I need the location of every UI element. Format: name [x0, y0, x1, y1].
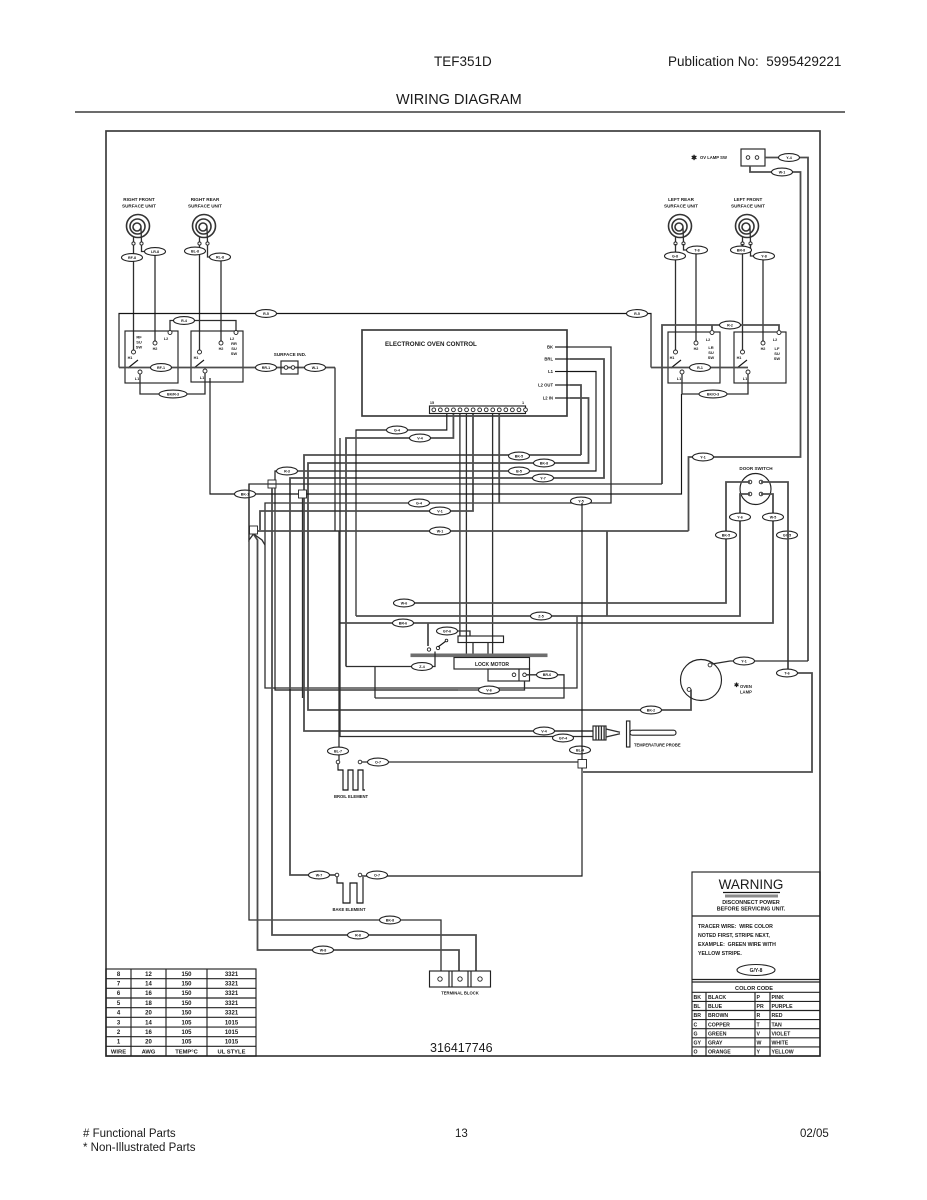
- wire strip t5 to lock relay: [459, 414, 461, 636]
- wire strip t3 (G-4): [356, 414, 447, 616]
- svg-text:O: O: [694, 1050, 698, 1056]
- svg-text:3321: 3321: [225, 1011, 239, 1017]
- svg-text:DOOR SWITCH: DOOR SWITCH: [739, 466, 773, 471]
- surface unit LF coil: [736, 215, 759, 246]
- svg-text:BLACK: BLACK: [708, 995, 726, 1001]
- wire strip t10 to lock bar: [492, 414, 494, 654]
- wire label G-4: [387, 426, 408, 434]
- wire L2 bus left (R-4): [170, 321, 236, 332]
- wire label T-6: [777, 669, 798, 677]
- svg-text:1015: 1015: [225, 1020, 239, 1026]
- wire junction B to lock area: [307, 394, 682, 494]
- svg-text:WIRE: WIRE: [111, 1049, 126, 1055]
- svg-text:BK-5: BK-5: [515, 454, 523, 458]
- wire label BK-1: [235, 490, 256, 498]
- svg-text:UL STYLE: UL STYLE: [218, 1049, 246, 1055]
- svg-text:H2: H2: [761, 347, 766, 351]
- svg-text:H2: H2: [153, 347, 158, 351]
- switch box LF SU SW: [734, 332, 786, 383]
- svg-text:B-5: B-5: [516, 469, 522, 473]
- svg-text:L2 OUT: L2 OUT: [538, 383, 553, 388]
- wire label RF-8: [122, 254, 143, 262]
- pin H1 (LF switch): [741, 350, 745, 354]
- wire label RL-8: [210, 253, 231, 261]
- svg-text:Y: Y: [757, 1050, 761, 1056]
- svg-text:H1: H1: [194, 356, 199, 360]
- temperature probe connector: [593, 726, 606, 740]
- svg-text:V-4: V-4: [541, 729, 546, 733]
- svg-text:BK-5: BK-5: [722, 533, 730, 537]
- wire L2 bus run y=484: [249, 484, 662, 971]
- svg-text:L2 IN: L2 IN: [543, 396, 553, 401]
- wire label Y-7: [533, 474, 554, 482]
- svg-text:SW: SW: [708, 355, 715, 360]
- pin H1 (RF switch): [132, 350, 136, 354]
- svg-text:SW: SW: [136, 345, 143, 350]
- lock motor relay rectangle: [458, 636, 504, 643]
- svg-text:3321: 3321: [225, 982, 239, 988]
- svg-text:WHITE: WHITE: [772, 1041, 789, 1047]
- svg-text:16: 16: [145, 1030, 152, 1036]
- wire label V-4: [534, 727, 555, 735]
- svg-text:SURFACE UNIT: SURFACE UNIT: [731, 204, 765, 209]
- wire strip t7 (G-4 lower): [260, 414, 473, 530]
- svg-text:YELLOW STRIPE.: YELLOW STRIPE.: [698, 951, 742, 957]
- color code table: [692, 992, 820, 1056]
- wire lamp switch bottom W-1: [689, 166, 801, 531]
- wire label R-4: [174, 317, 195, 325]
- svg-text:W-1: W-1: [312, 366, 319, 370]
- svg-text:BR-6: BR-6: [399, 621, 407, 625]
- wire EOC BK pin run: [265, 347, 611, 688]
- svg-text:12: 12: [145, 972, 152, 978]
- wire switch lever feed left: [119, 367, 335, 369]
- svg-text:BR: BR: [694, 1013, 702, 1019]
- wire junction B drop: [302, 498, 304, 698]
- svg-text:Publication No: 5995429221: Publication No: 5995429221: [668, 54, 841, 69]
- wire label R-2: [720, 321, 741, 329]
- svg-text:H1: H1: [737, 356, 742, 360]
- svg-text:TERMINAL BLOCK: TERMINAL BLOCK: [441, 991, 479, 996]
- pin H2 (LR switch): [694, 341, 698, 345]
- svg-text:R-3: R-3: [284, 469, 290, 473]
- lock motor relay legs: [472, 643, 474, 654]
- svg-text:BR-6: BR-6: [543, 673, 551, 677]
- lock motor cam bar: [411, 654, 548, 658]
- svg-text:3321: 3321: [225, 1001, 239, 1007]
- svg-text:L2: L2: [230, 337, 234, 341]
- wire label G-4: [409, 499, 430, 507]
- svg-text:GY-6: GY-6: [443, 629, 451, 633]
- svg-text:14: 14: [145, 982, 152, 988]
- svg-text:L1: L1: [200, 376, 204, 380]
- wire probe line GY-4: [340, 438, 593, 737]
- pin L1 (LR switch) + lever: [680, 370, 684, 374]
- broil element: [336, 760, 340, 764]
- wire lock motor right terminal (BR-6): [375, 675, 564, 698]
- wire label Z-5: [531, 612, 552, 620]
- svg-text:BK: BK: [547, 345, 553, 350]
- wire label Y-6: [730, 513, 751, 521]
- pin L2 (RR switch): [234, 331, 238, 335]
- wire label O-7: [368, 758, 389, 766]
- svg-text:RIGHT FRONT: RIGHT FRONT: [123, 197, 155, 202]
- wire label W-1: [772, 168, 793, 176]
- wire label BK/R-3: [159, 390, 187, 398]
- wire lamp switch to right bus Y-4: [765, 158, 808, 662]
- pin L1 (LF switch) + lever: [746, 370, 750, 374]
- svg-text:316417746: 316417746: [430, 1041, 493, 1055]
- svg-text:18: 18: [145, 1001, 152, 1007]
- svg-text:V-4: V-4: [417, 436, 422, 440]
- svg-text:TAN: TAN: [772, 1022, 783, 1028]
- wire label RF-1: [151, 364, 172, 372]
- svg-text:BL-8: BL-8: [191, 249, 199, 253]
- surface unit RR coil: [193, 215, 216, 246]
- svg-text:LEFT FRONT: LEFT FRONT: [734, 197, 763, 202]
- wire EOC L1 pin run: [275, 372, 596, 691]
- svg-text:EXAMPLE: GREEN WIRE WITH: EXAMPLE: GREEN WIRE WITH: [698, 942, 776, 948]
- svg-text:SURFACE UNIT: SURFACE UNIT: [188, 204, 222, 209]
- wire door switch left pins down (BK-5): [393, 482, 750, 603]
- wire label Y-8: [754, 252, 775, 260]
- svg-text:150: 150: [181, 982, 192, 988]
- svg-text:1015: 1015: [225, 1030, 239, 1036]
- svg-text:105: 105: [181, 1030, 192, 1036]
- svg-text:RR-1: RR-1: [262, 366, 270, 370]
- wire LF left lead to H1: [742, 244, 744, 350]
- svg-text:L2: L2: [164, 337, 168, 341]
- wire strip t11 (V-1): [498, 414, 500, 503]
- temperature probe body: [606, 729, 620, 732]
- svg-text:1: 1: [522, 401, 524, 405]
- junction square C: [250, 526, 258, 534]
- wire L1 link LR-LF (BK/O-3): [682, 374, 748, 394]
- svg-text:Y-5: Y-5: [578, 499, 583, 503]
- svg-text:W-1: W-1: [437, 529, 444, 533]
- wire label O-7: [367, 871, 388, 879]
- svg-text:VIOLET: VIOLET: [772, 1031, 792, 1037]
- svg-text:Y-8: Y-8: [761, 254, 766, 258]
- svg-text:PR: PR: [757, 1004, 764, 1010]
- wire label W-1: [430, 527, 451, 535]
- pin L2 (RF switch): [168, 331, 172, 335]
- wire LF right lead to H2: [751, 244, 764, 341]
- switch box RR SU SW: [191, 331, 243, 382]
- svg-text:BK/R-3: BK/R-3: [167, 392, 179, 396]
- wire label BK-5: [509, 452, 530, 460]
- wire EOC L2 IN pin run: [308, 398, 691, 710]
- wire label BL-4: [570, 746, 591, 754]
- wire label BR-8: [731, 246, 752, 254]
- svg-text:SURFACE UNIT: SURFACE UNIT: [664, 204, 698, 209]
- svg-text:P: P: [757, 995, 761, 1001]
- svg-text:G: G: [694, 1031, 698, 1037]
- svg-text:H2: H2: [219, 347, 224, 351]
- svg-text:# Functional Parts: # Functional Parts: [83, 1128, 176, 1140]
- svg-text:105: 105: [181, 1040, 192, 1046]
- switch box RF SU SW: [125, 331, 178, 383]
- svg-text:SW: SW: [231, 351, 238, 356]
- svg-text:R-2: R-2: [727, 323, 733, 327]
- wire RF right lead to H2: [142, 245, 156, 341]
- pin L2 (LF switch): [777, 331, 781, 335]
- svg-text:W-8: W-8: [320, 948, 327, 952]
- svg-text:GY: GY: [694, 1041, 702, 1047]
- svg-text:TEMP°C: TEMP°C: [175, 1049, 198, 1055]
- svg-text:LR-8: LR-8: [151, 250, 159, 254]
- svg-text:16: 16: [145, 991, 152, 997]
- svg-text:3321: 3321: [225, 972, 239, 978]
- svg-text:RF-8: RF-8: [128, 256, 136, 260]
- warning box: [692, 872, 820, 1056]
- svg-text:150: 150: [181, 972, 192, 978]
- wire label GY-5: [777, 531, 798, 539]
- wire junction D vertical: [581, 503, 583, 760]
- svg-text:L1: L1: [135, 377, 139, 381]
- svg-text:NOTED FIRST, STRIPE NEXT,: NOTED FIRST, STRIPE NEXT,: [698, 933, 770, 939]
- switch box LR SU SW: [668, 332, 720, 383]
- svg-text:BL-4: BL-4: [576, 748, 584, 752]
- svg-text:✱: ✱: [734, 682, 739, 689]
- svg-text:TEMPERATURE PROBE: TEMPERATURE PROBE: [634, 743, 681, 748]
- wire label G-8: [665, 252, 686, 260]
- svg-text:BAKE ELEMENT: BAKE ELEMENT: [332, 907, 365, 912]
- svg-text:150: 150: [181, 1011, 192, 1017]
- svg-text:* Non-Illustrated Parts: * Non-Illustrated Parts: [83, 1142, 196, 1154]
- wire label Y-1: [734, 657, 755, 665]
- wire label BK-8: [534, 459, 555, 467]
- wire label W-5: [763, 513, 784, 521]
- svg-text:BROWN: BROWN: [708, 1013, 728, 1019]
- wire label LR-8: [145, 248, 166, 256]
- wire door switch lower-left pin (Y-6): [356, 494, 750, 616]
- svg-text:W-6: W-6: [401, 601, 408, 605]
- pin L2 (LR switch): [710, 331, 714, 335]
- svg-text:G-4: G-4: [394, 428, 400, 432]
- pin H1 (LR switch): [674, 350, 678, 354]
- svg-text:H1: H1: [670, 356, 675, 360]
- svg-text:✱: ✱: [691, 154, 697, 162]
- wire junction A drop (R-8 to terminal block): [272, 488, 476, 971]
- wire EOC BRL pin run: [290, 359, 604, 875]
- svg-text:C: C: [694, 1022, 698, 1028]
- svg-text:LEFT REAR: LEFT REAR: [668, 197, 694, 202]
- svg-text:Y-1: Y-1: [700, 455, 705, 459]
- svg-text:Z-4: Z-4: [419, 665, 424, 669]
- svg-text:GRAY: GRAY: [708, 1041, 723, 1047]
- svg-text:14: 14: [145, 1020, 152, 1026]
- svg-text:BR-8: BR-8: [737, 248, 745, 252]
- bake element: [335, 873, 339, 877]
- svg-text:R-1: R-1: [697, 366, 703, 370]
- wire label Y-5: [571, 497, 592, 505]
- EOC terminal strip: [430, 406, 526, 414]
- wire label Y-1: [693, 453, 714, 461]
- wire label RR-1: [256, 364, 277, 372]
- svg-text:R-5: R-5: [263, 312, 269, 316]
- wire label T-8: [687, 246, 708, 254]
- wire label V-6: [479, 686, 500, 694]
- svg-text:TEF351D: TEF351D: [434, 54, 492, 69]
- wire label GY-4: [553, 734, 574, 742]
- svg-text:OV LAMP SW: OV LAMP SW: [700, 155, 727, 160]
- svg-text:WARNING: WARNING: [719, 877, 784, 892]
- junction square D: [578, 760, 587, 769]
- svg-text:Y-1: Y-1: [741, 659, 746, 663]
- svg-text:SURFACE UNIT: SURFACE UNIT: [122, 204, 156, 209]
- surface unit LR coil: [669, 215, 692, 246]
- svg-text:SURFACE IND.: SURFACE IND.: [274, 352, 306, 357]
- svg-text:RL-8: RL-8: [216, 255, 224, 259]
- svg-text:YELLOW: YELLOW: [772, 1050, 794, 1056]
- wire strip t4 (V-4): [346, 414, 453, 667]
- wire label R-5: [627, 310, 648, 318]
- svg-text:LOCK MOTOR: LOCK MOTOR: [475, 662, 509, 668]
- wire label V-1: [430, 507, 451, 515]
- svg-text:L2: L2: [773, 338, 777, 342]
- surface unit RF coil: [127, 215, 150, 246]
- wire label Z-4: [412, 663, 433, 671]
- svg-text:W-5: W-5: [770, 515, 777, 519]
- svg-text:R-4: R-4: [181, 319, 187, 323]
- wire switch lever feed right: [651, 367, 748, 369]
- svg-text:T-6: T-6: [784, 671, 789, 675]
- svg-text:R-8: R-8: [355, 933, 361, 937]
- wire label R-1: [690, 364, 711, 372]
- wire RF left lead to H1: [133, 245, 135, 350]
- wire door switch lower-right pin (W-5/GY-5): [340, 494, 773, 623]
- terminal block: [430, 971, 491, 987]
- svg-text:DISCONNECT POWER: DISCONNECT POWER: [722, 900, 780, 906]
- wire EOC L2 OUT pin run (Y-1 lamp feed): [304, 455, 593, 731]
- svg-text:O-7: O-7: [374, 873, 380, 877]
- svg-text:WIRING DIAGRAM: WIRING DIAGRAM: [396, 92, 522, 108]
- svg-text:V: V: [757, 1031, 761, 1037]
- pin H2 (RR switch): [219, 341, 223, 345]
- svg-text:TRACER WIRE: WIRE COLOR: TRACER WIRE: WIRE COLOR: [698, 924, 773, 930]
- wire label BK-8: [380, 916, 401, 924]
- wire label BR-6: [393, 619, 414, 627]
- pin L1 (RR switch) + lever: [203, 369, 207, 373]
- svg-text:BLUE: BLUE: [708, 1004, 723, 1010]
- wire oven lamp top (Y-1): [712, 661, 808, 664]
- svg-text:Y-7: Y-7: [540, 476, 545, 480]
- svg-text:BL: BL: [694, 1004, 702, 1010]
- pin H2 (RF switch): [153, 341, 157, 345]
- svg-text:RF-1: RF-1: [157, 366, 165, 370]
- electronic oven control box: [362, 330, 567, 416]
- svg-text:L1: L1: [677, 377, 681, 381]
- svg-text:SW: SW: [774, 356, 781, 361]
- wire label GY-6: [437, 627, 458, 635]
- svg-text:BL-7: BL-7: [334, 749, 342, 753]
- pin H1 (RR switch): [198, 350, 202, 354]
- svg-text:W-7: W-7: [316, 873, 323, 877]
- wire strip t6 to lock bar: [465, 414, 467, 654]
- svg-text:ORANGE: ORANGE: [708, 1050, 731, 1056]
- wire gauge table: [106, 969, 256, 1056]
- wire BR-6 line continues left: [427, 623, 429, 646]
- wire lock motor Z-4 feed: [346, 652, 435, 667]
- surface indicator lamp: [281, 361, 298, 374]
- svg-text:13: 13: [455, 1128, 468, 1140]
- wire RR left lead to H1: [199, 245, 201, 350]
- svg-text:150: 150: [181, 1001, 192, 1007]
- svg-text:1015: 1015: [225, 1040, 239, 1046]
- wire L1 RR drop through B: [210, 378, 299, 494]
- svg-text:PINK: PINK: [772, 995, 785, 1001]
- wire label W-8: [313, 946, 334, 954]
- svg-text:O-7: O-7: [375, 760, 381, 764]
- wire LR right lead to H2: [684, 244, 697, 341]
- wire junction C legs: [249, 484, 254, 540]
- svg-text:V-1: V-1: [437, 509, 442, 513]
- junction square B: [299, 490, 307, 498]
- svg-text:Z-5: Z-5: [538, 614, 543, 618]
- svg-text:BK: BK: [694, 995, 702, 1001]
- lock motor box: [454, 658, 530, 670]
- svg-text:OVEN: OVEN: [740, 684, 752, 689]
- svg-text:BK/O-3: BK/O-3: [707, 392, 719, 396]
- diagram border frame: [106, 131, 820, 1056]
- svg-text:COPPER: COPPER: [708, 1022, 730, 1028]
- svg-text:T-8: T-8: [694, 248, 699, 252]
- lock motor switch contacts: [427, 648, 430, 651]
- svg-text:RED: RED: [772, 1013, 783, 1019]
- svg-text:G/Y-8: G/Y-8: [750, 968, 763, 974]
- wire label BK-5: [716, 531, 737, 539]
- svg-text:BK-8: BK-8: [386, 918, 394, 922]
- svg-text:G-8: G-8: [672, 254, 678, 258]
- svg-text:BK-8: BK-8: [540, 461, 548, 465]
- svg-text:RIGHT REAR: RIGHT REAR: [191, 197, 220, 202]
- svg-text:15: 15: [430, 401, 434, 405]
- svg-text:V-6: V-6: [486, 688, 491, 692]
- svg-text:BEFORE SERVICING UNIT.: BEFORE SERVICING UNIT.: [717, 907, 786, 913]
- wire main L1 feed bus: [119, 314, 651, 368]
- svg-text:H1: H1: [128, 356, 133, 360]
- wire label R-3: [277, 467, 298, 475]
- wire broil right (O-7) to junction D: [362, 761, 578, 763]
- wire door switch top-right pin to T-6: [583, 482, 812, 772]
- wire label BL-7: [328, 747, 349, 755]
- svg-text:105: 105: [181, 1020, 192, 1026]
- svg-text:150: 150: [181, 991, 192, 997]
- svg-text:COLOR CODE: COLOR CODE: [735, 986, 773, 992]
- wire lock loop left verticals: [374, 667, 376, 699]
- lock motor terminal sub-box: [488, 669, 530, 681]
- pin L1 (RF switch) + lever: [138, 370, 142, 374]
- svg-text:AWG: AWG: [142, 1049, 156, 1055]
- svg-text:L2: L2: [706, 338, 710, 342]
- title underline: [75, 111, 845, 113]
- svg-text:3321: 3321: [225, 991, 239, 997]
- svg-text:W-1: W-1: [779, 170, 786, 174]
- wire RR right lead to H2: [208, 245, 222, 341]
- wire surface ind drop: [334, 368, 336, 532]
- svg-text:02/05: 02/05: [800, 1128, 829, 1140]
- svg-text:Y-6: Y-6: [737, 515, 742, 519]
- svg-text:LAMP: LAMP: [740, 690, 752, 695]
- svg-text:L1: L1: [743, 377, 747, 381]
- oven lamp: [681, 660, 722, 701]
- svg-text:20: 20: [145, 1040, 152, 1046]
- wire label Y-4: [779, 154, 800, 162]
- svg-text:R: R: [757, 1013, 761, 1019]
- svg-text:W: W: [757, 1041, 762, 1047]
- wire L1 link RF-RR (BK/R-3): [140, 373, 205, 394]
